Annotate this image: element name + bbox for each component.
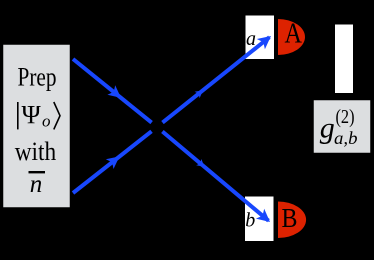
detector B white window xyxy=(245,197,274,242)
svg-text:o: o xyxy=(42,112,51,131)
arrowhead nub on beam to A xyxy=(195,90,203,98)
wire beam outgoing to A xyxy=(163,37,270,122)
svg-text:(2): (2) xyxy=(336,106,355,128)
detector B red dome xyxy=(278,202,306,239)
svg-text:with: with xyxy=(15,136,57,166)
arrowhead at detector B xyxy=(256,209,270,222)
label n overline xyxy=(29,171,46,173)
svg-text:b: b xyxy=(245,209,255,231)
wire beam outgoing to B xyxy=(162,132,268,221)
label ket bar xyxy=(17,102,19,129)
arrowhead nub on beam to B xyxy=(196,159,204,167)
svg-text:A: A xyxy=(285,19,303,50)
correlator g2 box xyxy=(313,100,371,154)
white bar xyxy=(335,25,353,94)
detector A white window xyxy=(246,16,275,60)
svg-text:B: B xyxy=(282,203,298,233)
svg-text:Prep: Prep xyxy=(18,63,57,92)
svg-text:a,b: a,b xyxy=(334,128,358,148)
detector A red dome xyxy=(278,19,305,55)
arrowhead at detector A xyxy=(257,36,271,49)
prep box xyxy=(3,44,71,208)
svg-text:a: a xyxy=(246,28,256,50)
arrowhead mid upper beam xyxy=(107,85,121,98)
arrowhead mid lower beam xyxy=(106,156,120,169)
label ket right angle bracket xyxy=(54,102,60,129)
wire beam upper-left incoming xyxy=(73,59,152,123)
wire beam lower-left incoming xyxy=(73,131,152,193)
svg-text:Ψ: Ψ xyxy=(22,100,42,129)
svg-text:g: g xyxy=(320,111,335,144)
svg-text:n: n xyxy=(30,171,43,198)
